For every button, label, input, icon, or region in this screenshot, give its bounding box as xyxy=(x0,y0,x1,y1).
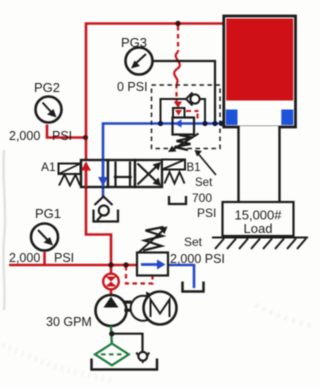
valve V1 left envelope blue B-T flow arrow xyxy=(102,160,105,187)
node PG2 tap junction xyxy=(83,135,88,140)
wire red PG1 branch xyxy=(43,252,46,265)
spring of counterbalance valve CB1 xyxy=(175,135,193,150)
valve V1 right envelope crossed arrows xyxy=(138,164,160,185)
check valve CV2 tank return xyxy=(136,352,149,362)
motor M1 electric motor xyxy=(144,292,177,325)
counterbalance valve CB1 pilot cap xyxy=(173,108,185,118)
spring right of valve V1 xyxy=(165,172,185,184)
svg-text:PSI: PSI xyxy=(54,251,74,265)
solenoid B1 xyxy=(162,160,185,170)
valve V1 left envelope red P-A flow arrow xyxy=(85,163,88,187)
node suction junction xyxy=(109,331,114,336)
svg-text:30 GPM: 30 GPM xyxy=(46,315,92,329)
node top line junction xyxy=(175,21,180,26)
valve V1 center envelope blocked symbol xyxy=(116,162,131,187)
wire black tank return branch to check valve xyxy=(112,334,143,352)
svg-text:B1: B1 xyxy=(187,162,201,174)
wire red pilot dashed from top line to counterbalance valve xyxy=(174,26,180,104)
filter F1 suction strainer xyxy=(95,344,129,366)
svg-text:0 PSI: 0 PSI xyxy=(117,80,148,94)
wire red pressure main: pump to junction to valve P and up to cylinder cap xyxy=(9,24,225,297)
svg-text:2,000 PSI: 2,000 PSI xyxy=(170,252,225,266)
svg-text:Load: Load xyxy=(244,221,273,236)
rotation arrow arc xyxy=(131,296,150,321)
svg-text:700: 700 xyxy=(192,191,212,205)
flow meter FM1 xyxy=(103,274,119,290)
node pump line junction xyxy=(108,262,113,267)
reservoir T1 main tank xyxy=(92,359,158,370)
check valve CV1 in counterbalance bypass xyxy=(186,93,200,106)
svg-text:A1: A1 xyxy=(41,160,56,174)
shaft coupling pump to motor xyxy=(124,301,131,304)
wire green pump suction xyxy=(110,326,113,344)
pump P1 xyxy=(96,295,127,326)
tank T2 small drain tank under B1 xyxy=(169,196,186,204)
ground hatching under load xyxy=(212,238,308,250)
cylinder CYL1 piston rod xyxy=(239,126,280,202)
node blue line junction at PG3 tap xyxy=(212,121,217,126)
valve V1 directional control 3-position body xyxy=(81,160,162,187)
wire red relief valve pilot dashed xyxy=(126,266,153,284)
tank T3 relief valve drain tank xyxy=(183,282,204,292)
wire red pilot small branch inside counterbalance valve xyxy=(186,111,199,119)
pointer line to Set 700 PSI label xyxy=(198,154,216,176)
svg-text:2,000: 2,000 xyxy=(9,129,40,143)
svg-text:PSI: PSI xyxy=(52,129,72,143)
gauge PG1 xyxy=(31,206,61,251)
node blue line junction at bypass left xyxy=(158,121,163,126)
svg-text:PSI: PSI xyxy=(197,206,216,220)
node blue line junction at cylinder port xyxy=(219,121,224,126)
node blue line junction at bypass right xyxy=(202,121,207,126)
svg-text:Set: Set xyxy=(184,235,203,249)
reservoir return symbol under valve V1 xyxy=(94,197,119,222)
wire blue rod-side line from valve B port to cylinder xyxy=(103,124,227,197)
solenoid A1 xyxy=(59,164,81,175)
spring left of valve V1 xyxy=(59,175,80,186)
counterbalance valve CB1 dashed enclosure xyxy=(152,85,221,149)
gauge PG3 xyxy=(121,35,153,75)
svg-text:Set: Set xyxy=(195,177,213,189)
load W1 weight block xyxy=(223,202,294,236)
svg-text:PG1: PG1 xyxy=(35,206,61,221)
relief valve RV1 body xyxy=(137,253,168,276)
svg-text:2,000: 2,000 xyxy=(9,251,40,265)
wire blue relief valve outlet to tank xyxy=(168,265,194,288)
gauge PG2 xyxy=(34,80,62,123)
cylinder CYL1 barrel xyxy=(224,16,296,127)
node relief pilot junction xyxy=(123,262,128,267)
wire red PG2 branch xyxy=(47,125,85,138)
spring of relief valve RV1 xyxy=(143,227,164,251)
svg-text:PG2: PG2 xyxy=(34,80,60,95)
counterbalance valve CB1 main square xyxy=(173,118,195,135)
wire black check valve bypass loop xyxy=(161,99,187,124)
wire black PG3 sensing line xyxy=(152,61,215,124)
